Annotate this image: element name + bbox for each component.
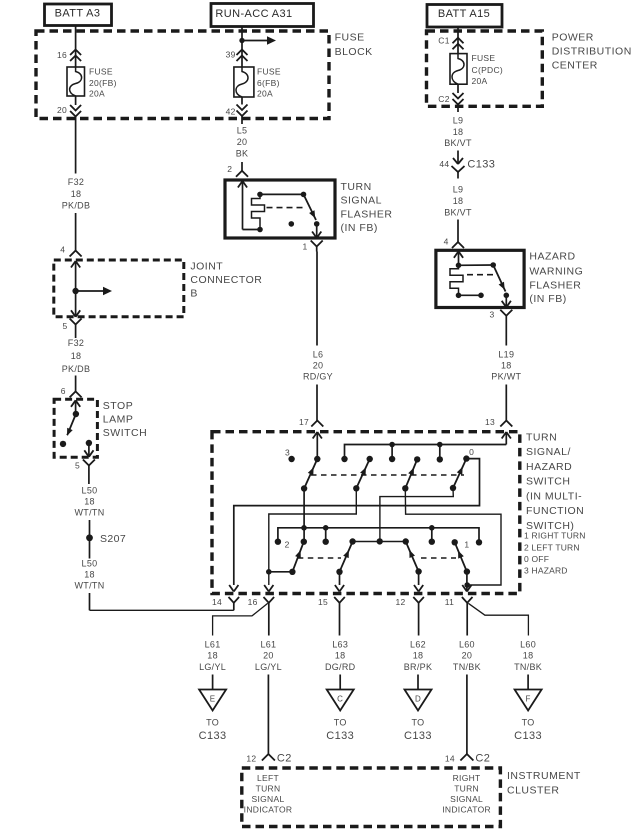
svg-text:TO: TO	[522, 718, 535, 728]
svg-text:CENTER: CENTER	[552, 59, 598, 71]
svg-text:C(PDC): C(PDC)	[472, 65, 504, 75]
svg-text:STOP: STOP	[103, 400, 133, 412]
svg-text:16: 16	[57, 50, 67, 60]
svg-text:L19: L19	[498, 350, 514, 360]
svg-text:PK/DB: PK/DB	[62, 364, 91, 374]
svg-text:18: 18	[207, 651, 218, 661]
svg-text:L60: L60	[520, 640, 536, 650]
svg-text:5: 5	[75, 461, 80, 471]
svg-text:TURN: TURN	[341, 181, 372, 193]
svg-text:18: 18	[413, 651, 424, 661]
svg-text:C2: C2	[277, 752, 292, 764]
svg-text:INDICATOR: INDICATOR	[442, 805, 491, 815]
svg-text:20A: 20A	[472, 76, 488, 86]
svg-text:BK: BK	[236, 149, 249, 159]
svg-text:39: 39	[226, 50, 236, 60]
svg-text:C2: C2	[475, 752, 490, 764]
svg-text:1: 1	[302, 241, 307, 251]
svg-text:6: 6	[61, 386, 66, 396]
svg-text:E: E	[210, 695, 216, 704]
svg-text:5: 5	[62, 321, 67, 331]
svg-text:20A: 20A	[257, 89, 273, 99]
svg-text:LEFT: LEFT	[257, 773, 279, 783]
svg-text:TURN: TURN	[526, 431, 557, 443]
svg-text:15: 15	[318, 597, 328, 607]
svg-text:L5: L5	[237, 126, 248, 136]
svg-text:BK/VT: BK/VT	[444, 207, 472, 217]
svg-text:17: 17	[299, 417, 309, 427]
svg-text:1 RIGHT TURN: 1 RIGHT TURN	[524, 531, 586, 541]
svg-text:PK/WT: PK/WT	[491, 372, 521, 382]
svg-text:SIGNAL: SIGNAL	[450, 794, 483, 804]
svg-text:6(FB): 6(FB)	[257, 78, 280, 88]
svg-text:WT/TN: WT/TN	[75, 581, 105, 591]
svg-text:TO: TO	[206, 718, 219, 728]
svg-text:CLUSTER: CLUSTER	[507, 785, 560, 797]
svg-text:RIGHT: RIGHT	[453, 773, 481, 783]
svg-text:C133: C133	[467, 159, 495, 171]
svg-text:20: 20	[57, 105, 67, 115]
svg-text:12: 12	[395, 597, 405, 607]
svg-text:BLOCK: BLOCK	[335, 46, 373, 58]
svg-text:20: 20	[462, 651, 473, 661]
svg-text:S207: S207	[100, 533, 126, 545]
svg-text:12: 12	[246, 754, 256, 764]
svg-text:C133: C133	[404, 730, 432, 742]
svg-text:LG/YL: LG/YL	[255, 662, 282, 672]
svg-text:HAZARD: HAZARD	[526, 461, 572, 473]
svg-text:44: 44	[439, 159, 449, 169]
svg-text:SIGNAL/: SIGNAL/	[526, 446, 571, 458]
svg-text:WARNING: WARNING	[529, 265, 583, 277]
svg-text:TURN: TURN	[454, 784, 479, 794]
svg-text:POWER: POWER	[552, 32, 594, 44]
svg-text:(IN FB): (IN FB)	[341, 222, 378, 234]
svg-text:L50: L50	[82, 559, 98, 569]
svg-text:F32: F32	[68, 177, 84, 187]
svg-text:18: 18	[501, 361, 512, 371]
svg-text:18: 18	[84, 497, 95, 507]
svg-text:18: 18	[71, 351, 82, 361]
svg-text:LAMP: LAMP	[103, 414, 134, 426]
svg-text:BATT A3: BATT A3	[55, 8, 101, 20]
svg-text:WT/TN: WT/TN	[75, 508, 105, 518]
svg-text:0: 0	[469, 447, 474, 457]
svg-text:3: 3	[285, 447, 290, 457]
svg-text:18: 18	[453, 127, 464, 137]
svg-text:20(FB): 20(FB)	[89, 78, 117, 88]
svg-text:TN/BK: TN/BK	[514, 662, 542, 672]
svg-text:4: 4	[60, 245, 65, 255]
svg-text:INDICATOR: INDICATOR	[244, 805, 293, 815]
svg-text:3 HAZARD: 3 HAZARD	[524, 566, 568, 576]
svg-text:SWITCH: SWITCH	[526, 476, 570, 488]
svg-text:FUNCTION: FUNCTION	[526, 505, 584, 517]
svg-text:(IN FB): (IN FB)	[529, 293, 566, 305]
svg-text:FUSE: FUSE	[257, 66, 281, 76]
svg-text:SWITCH: SWITCH	[103, 427, 147, 439]
svg-text:TO: TO	[412, 718, 425, 728]
svg-text:RUN-ACC A31: RUN-ACC A31	[215, 8, 292, 20]
svg-text:20: 20	[237, 137, 248, 147]
svg-text:FUSE: FUSE	[472, 53, 496, 63]
svg-text:SIGNAL: SIGNAL	[252, 794, 285, 804]
svg-text:L61: L61	[260, 640, 276, 650]
svg-text:C: C	[337, 695, 343, 704]
svg-text:FLASHER: FLASHER	[529, 280, 581, 292]
svg-text:18: 18	[84, 570, 95, 580]
svg-text:2: 2	[285, 540, 290, 550]
svg-text:L9: L9	[453, 185, 464, 195]
svg-text:20: 20	[313, 361, 324, 371]
svg-text:11: 11	[445, 597, 454, 607]
svg-text:LG/YL: LG/YL	[199, 662, 226, 672]
svg-text:PK/DB: PK/DB	[62, 201, 91, 211]
svg-text:L6: L6	[313, 350, 324, 360]
svg-text:(IN MULTI-: (IN MULTI-	[526, 490, 582, 502]
svg-text:L9: L9	[453, 116, 464, 126]
svg-text:3: 3	[489, 310, 494, 320]
svg-text:1: 1	[464, 539, 469, 549]
svg-text:0 OFF: 0 OFF	[524, 554, 549, 564]
svg-text:DISTRIBUTION: DISTRIBUTION	[552, 46, 632, 58]
svg-text:RD/GY: RD/GY	[303, 372, 333, 382]
svg-text:14: 14	[212, 597, 222, 607]
svg-text:INSTRUMENT: INSTRUMENT	[507, 770, 581, 782]
svg-text:B: B	[190, 287, 198, 299]
svg-text:L63: L63	[332, 640, 348, 650]
svg-text:C133: C133	[199, 730, 227, 742]
svg-text:FUSE: FUSE	[89, 66, 113, 76]
svg-text:JOINT: JOINT	[190, 261, 223, 273]
svg-text:F32: F32	[68, 338, 84, 348]
svg-text:13: 13	[485, 417, 495, 427]
svg-text:18: 18	[453, 196, 464, 206]
svg-text:TN/BK: TN/BK	[453, 662, 481, 672]
svg-text:18: 18	[71, 189, 82, 199]
svg-text:C2: C2	[438, 94, 449, 104]
svg-text:L60: L60	[459, 640, 475, 650]
svg-text:F: F	[526, 695, 531, 704]
svg-text:18: 18	[335, 651, 346, 661]
svg-text:L61: L61	[205, 640, 221, 650]
svg-text:BATT A15: BATT A15	[438, 8, 490, 20]
svg-text:2 LEFT TURN: 2 LEFT TURN	[524, 542, 580, 552]
svg-text:C1: C1	[438, 36, 449, 46]
svg-text:BK/VT: BK/VT	[444, 138, 472, 148]
svg-text:C133: C133	[514, 730, 542, 742]
svg-text:14: 14	[445, 754, 455, 764]
svg-text:L62: L62	[410, 640, 426, 650]
svg-text:16: 16	[248, 597, 258, 607]
svg-text:18: 18	[523, 651, 534, 661]
svg-text:FLASHER: FLASHER	[341, 209, 393, 221]
svg-text:BR/PK: BR/PK	[404, 662, 433, 672]
svg-text:C133: C133	[326, 730, 354, 742]
svg-text:2: 2	[227, 164, 232, 174]
svg-text:CONNECTOR: CONNECTOR	[190, 274, 262, 286]
svg-text:4: 4	[444, 236, 449, 246]
svg-text:TO: TO	[334, 718, 347, 728]
svg-text:TURN: TURN	[256, 784, 281, 794]
svg-text:SIGNAL: SIGNAL	[341, 195, 383, 207]
svg-text:L50: L50	[82, 486, 98, 496]
svg-text:FUSE: FUSE	[335, 32, 365, 44]
svg-text:D: D	[415, 695, 421, 704]
svg-text:HAZARD: HAZARD	[529, 250, 575, 262]
svg-text:42: 42	[226, 107, 236, 117]
svg-text:20: 20	[263, 651, 274, 661]
svg-text:DG/RD: DG/RD	[325, 662, 356, 672]
svg-text:20A: 20A	[89, 89, 105, 99]
